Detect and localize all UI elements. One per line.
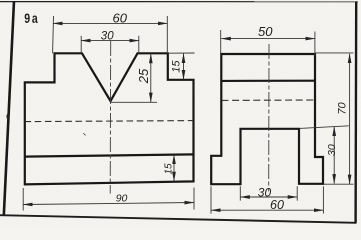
side view hidden dashed line (222, 99, 315, 101)
frame right border (354, 1, 357, 223)
frame bottom border (0, 215, 357, 223)
dim 60 line (53, 22, 167, 24)
dim 90 line (23, 203, 194, 205)
dim 60 bottom line (211, 209, 323, 211)
front view hidden dashed line (25, 121, 194, 122)
front view base strip top edge (25, 154, 194, 156)
dim 25 line (150, 54, 152, 102)
front view outline (25, 53, 194, 184)
frame top border (0, 1, 358, 3)
dim 60 bottom extension lines (210, 186, 212, 213)
frame left border (4, 1, 14, 216)
border blemish (6, 114, 9, 119)
dim 30 bottom line (240, 196, 297, 198)
dim 70 line (349, 54, 351, 184)
dim 70 extension lines (315, 52, 353, 54)
dim 15 upper line (183, 54, 185, 80)
side view vertical centerline (268, 44, 270, 192)
speck artifact (83, 134, 86, 136)
dim 15 upper extension line (168, 52, 195, 54)
dim 30 side line (333, 127, 335, 184)
dim 30 side extension line (300, 126, 349, 129)
dim 50 extension lines (220, 30, 222, 56)
dim 90 extension lines (22, 188, 24, 211)
dim 30 line (81, 40, 139, 42)
dim 50 line (221, 38, 314, 40)
dim 30 bottom extension lines (239, 186, 241, 200)
side view outline (211, 54, 323, 184)
front view vertical centerline (109, 41, 112, 194)
side view shoulder edge (221, 80, 315, 82)
dim 25 extension line (111, 101, 157, 103)
dim 60 extension lines (52, 16, 55, 53)
dim 15 lower line (173, 155, 175, 181)
dim 30 extension lines (80, 36, 82, 54)
